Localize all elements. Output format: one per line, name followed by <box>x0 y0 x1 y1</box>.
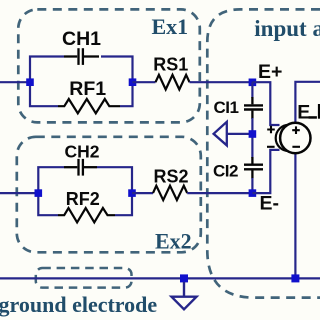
dashed box Ex1 <box>18 9 200 122</box>
dashed box ground electrode <box>36 268 132 288</box>
plus sign big source <box>292 126 300 134</box>
svg-text:ground electrode: ground electrode <box>0 292 157 317</box>
node Ex2 left junction <box>35 189 43 197</box>
wire input E+ lead <box>0 81 30 83</box>
svg-text:input amplifier: input amplifier <box>254 16 320 41</box>
svg-text:E-: E- <box>260 192 280 214</box>
node E- <box>249 189 257 197</box>
svg-text:CI1: CI1 <box>214 98 239 117</box>
svg-text:RS2: RS2 <box>154 167 189 187</box>
wire input E- lead <box>0 192 38 194</box>
resistor RS1 <box>156 75 190 90</box>
resistor RF2 <box>58 208 115 222</box>
wire ground stub <box>183 282 185 296</box>
wire RS2 to E- <box>187 192 252 194</box>
svg-text:CH2: CH2 <box>65 141 100 161</box>
wire Ex1 to RS1 <box>133 81 156 83</box>
capacitor CH2 <box>64 159 97 176</box>
svg-text:RS1: RS1 <box>153 54 188 74</box>
label E_ underscore <box>309 116 317 119</box>
capacitor CH1 <box>64 48 99 65</box>
svg-text:CI2: CI2 <box>213 161 238 180</box>
svg-text:E: E <box>297 101 310 123</box>
wire Ex2 to RS2 <box>132 192 153 194</box>
reference triangle <box>214 122 227 146</box>
wire CI2 to E- <box>251 178 253 193</box>
node source ground junction <box>291 274 299 282</box>
resistor RS2 <box>153 186 187 200</box>
wire CI1 to CI2 <box>251 118 253 158</box>
wire source Ec to ground <box>294 154 296 279</box>
capacitor CI2 <box>244 157 263 179</box>
wire ground bus <box>0 277 320 279</box>
capacitor CI1 <box>244 97 263 119</box>
wire source Ed to E- <box>252 150 279 193</box>
dashed box input amplifier <box>207 9 320 297</box>
svg-text:E+: E+ <box>258 61 282 83</box>
node Ex2 right junction <box>128 189 136 197</box>
wire Ex2 loop <box>38 167 132 215</box>
svg-text:Ex1: Ex1 <box>152 14 189 39</box>
minus sign left source <box>267 146 275 148</box>
ground symbol <box>172 297 197 310</box>
wire RS1 to E+ <box>190 81 253 83</box>
wire E+ to source Ed <box>252 82 279 125</box>
plus sign left source <box>267 126 275 134</box>
node E+ <box>249 79 257 87</box>
wire top right rail <box>295 82 320 123</box>
label E_ partial glyph d <box>318 104 320 119</box>
resistor RF1 <box>58 99 120 113</box>
node Ex1 right junction <box>129 78 137 86</box>
node Ex1 left junction <box>26 78 34 86</box>
wire E+ to CI1 <box>251 82 253 98</box>
wire triangle lead <box>227 133 252 135</box>
svg-text:Ex2: Ex2 <box>155 228 192 253</box>
svg-text:RF1: RF1 <box>69 78 106 100</box>
svg-text:CH1: CH1 <box>62 28 101 50</box>
node CI middle junction <box>249 130 257 138</box>
node ground symbol junction <box>180 274 188 282</box>
minus sign big source <box>292 146 300 148</box>
wire Ex1 loop <box>30 57 133 107</box>
dashed box Ex2 <box>17 137 201 253</box>
source big circle <box>280 123 310 153</box>
svg-text:RF2: RF2 <box>66 189 100 209</box>
source small circle <box>276 125 302 151</box>
